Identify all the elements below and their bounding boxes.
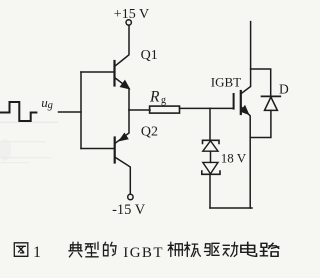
Rg label: [149, 89, 166, 106]
wire output node to Rg: [129, 109, 150, 111]
wire bottom rail to Q2 base: [81, 148, 114, 150]
svg-text:Q2: Q2: [141, 124, 158, 139]
wire collector branch to diode D: [251, 69, 271, 96]
wire base rail vertical: [80, 72, 82, 149]
svg-text:R: R: [149, 89, 160, 106]
-15 V supply terminal: [128, 194, 133, 199]
wire zener branch down: [209, 108, 211, 140]
wire zener bottom lead: [209, 174, 211, 208]
caption 的: [104, 242, 117, 256]
caption IGBT: [123, 245, 164, 261]
IGBT: [234, 22, 251, 208]
caption 动: [223, 242, 238, 256]
transistor Q2: [115, 110, 131, 194]
resistor Rg: [150, 106, 180, 113]
caption 典: [69, 242, 82, 256]
18 V label: [221, 150, 247, 165]
diode D: [262, 96, 281, 110]
IGBT label: [211, 75, 241, 90]
svg-text:-15 V: -15 V: [112, 202, 146, 218]
faint scan streaks: [0, 122, 58, 164]
svg-text:IGBT: IGBT: [123, 245, 164, 261]
-15 V label: [112, 202, 146, 218]
svg-text:+15 V: +15 V: [114, 7, 149, 22]
wire input to base rail: [59, 111, 82, 113]
D label: [279, 82, 289, 97]
+15 V label: [114, 7, 149, 22]
zener ZD1: [203, 140, 220, 151]
wire diode anode to emitter: [250, 110, 271, 137]
wire Rg to IGBT gate: [180, 107, 234, 109]
caption 栅: [168, 242, 183, 256]
svg-text:D: D: [279, 82, 289, 97]
zener ZD2: [202, 162, 220, 174]
caption 电: [241, 242, 257, 256]
node ug label: [41, 95, 53, 111]
wire emitter bottom rail: [210, 207, 252, 209]
wire top rail to Q1 base: [81, 71, 114, 73]
caption 型: [86, 242, 99, 256]
caption 路: [261, 243, 279, 256]
caption 驱: [205, 243, 220, 255]
caption 1: [33, 244, 41, 261]
+15 V supply terminal: [126, 20, 131, 25]
svg-text:g: g: [48, 100, 53, 111]
wire between zeners: [210, 151, 212, 162]
svg-text:Q1: Q1: [141, 48, 158, 63]
svg-text:1: 1: [33, 244, 41, 261]
Q1 label: [141, 48, 158, 63]
caption 极: [185, 242, 201, 256]
svg-text:g: g: [161, 95, 166, 106]
svg-text:IGBT: IGBT: [211, 75, 241, 90]
input square-wave source ug: [0, 102, 36, 121]
caption 图: [14, 243, 27, 256]
Q2 label: [141, 124, 158, 139]
svg-text:18 V: 18 V: [221, 150, 247, 165]
transistor Q1: [115, 26, 130, 110]
